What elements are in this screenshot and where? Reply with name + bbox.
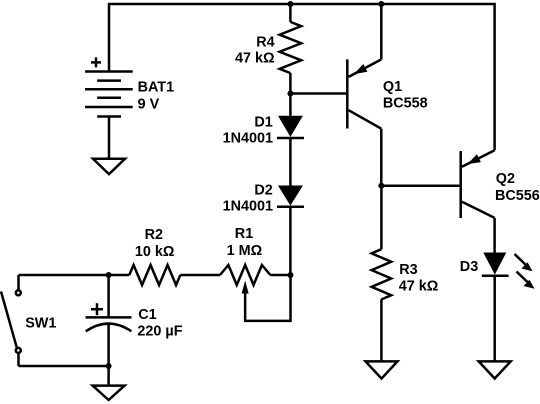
svg-text:220 µF: 220 µF <box>137 324 182 340</box>
svg-text:D3: D3 <box>460 259 478 275</box>
wire C1 top stem <box>107 275 110 317</box>
node top-rail/R4 junction <box>287 1 293 7</box>
node top-rail/Q1 junction <box>378 1 384 7</box>
svg-text:BC556: BC556 <box>495 188 540 204</box>
wire C1 junction to ground <box>107 366 110 386</box>
svg-text:1N4001: 1N4001 <box>223 131 273 147</box>
resistor R3 47 kOhm <box>372 249 439 299</box>
battery BAT1 <box>85 57 174 116</box>
wire top rail to R4 <box>289 4 292 22</box>
wire D2 to R1 right terminal <box>289 207 292 275</box>
wire top rail with battery and Q2 emitter verticals <box>109 4 495 150</box>
wire R1 wiper to right terminal <box>242 277 291 321</box>
wire SW1 bottom rail <box>19 365 109 368</box>
wire R3 to ground <box>380 299 383 361</box>
svg-text:R3: R3 <box>399 262 417 278</box>
svg-text:R2: R2 <box>145 227 163 243</box>
wire D3 to ground <box>493 276 496 362</box>
ground (R3) <box>366 361 398 378</box>
transistor Q2 BC556 <box>461 150 540 218</box>
wire SW1 top to R2 <box>19 274 130 277</box>
svg-text:Q1: Q1 <box>383 79 402 95</box>
svg-text:D1: D1 <box>254 114 272 130</box>
node R4/D1/Q1-base junction <box>287 91 293 97</box>
svg-text:10 kΩ: 10 kΩ <box>135 244 175 260</box>
node Q1-collector/R3/Q2-base junction <box>378 183 384 189</box>
node R1/D2 junction <box>288 272 294 278</box>
LED D3 <box>460 253 509 276</box>
node C1 top junction <box>106 272 112 278</box>
wire D1 to D2 <box>289 138 292 186</box>
wire Q2 collector to D3 <box>493 218 496 253</box>
wire R2 to R1 <box>180 274 220 277</box>
resistor R2 10 kOhm <box>129 227 180 285</box>
potentiometer R1 1 MOhm <box>220 226 270 285</box>
ground (D3) <box>479 361 511 378</box>
transistor Q1 BC558 <box>347 4 427 129</box>
ground (C1) <box>93 386 125 400</box>
wire Q1 base <box>290 92 346 95</box>
svg-text:R4: R4 <box>256 35 274 51</box>
diode D2 1N4001 <box>223 183 304 215</box>
svg-text:1N4001: 1N4001 <box>223 199 273 215</box>
node C1/ground junction <box>106 363 112 369</box>
wire R1 right terminal to junction <box>270 274 290 277</box>
wire C1 bottom stem <box>107 324 110 366</box>
svg-text:9 V: 9 V <box>138 96 160 112</box>
svg-text:D2: D2 <box>254 183 272 199</box>
wire R4 to D1 <box>289 73 292 116</box>
svg-text:47 kΩ: 47 kΩ <box>399 279 439 295</box>
svg-text:47 kΩ: 47 kΩ <box>235 51 275 67</box>
resistor R4 47 kOhm <box>235 22 301 73</box>
svg-text:BAT1: BAT1 <box>138 80 175 96</box>
wire R3 top <box>380 186 383 249</box>
switch SW1 <box>1 275 56 366</box>
LED light arrow 2 <box>517 272 535 289</box>
svg-text:SW1: SW1 <box>25 316 56 332</box>
svg-text:Q2: Q2 <box>496 171 515 187</box>
svg-text:BC558: BC558 <box>383 95 428 111</box>
wire Q1 collector down <box>380 129 383 186</box>
capacitor C1 220 uF <box>86 303 183 340</box>
wire Q2 base <box>381 185 459 188</box>
wire battery to ground <box>108 117 111 159</box>
ground (battery) <box>93 159 125 174</box>
svg-text:1 MΩ: 1 MΩ <box>227 243 263 259</box>
diode D1 1N4001 <box>223 114 304 146</box>
svg-text:C1: C1 <box>138 307 156 323</box>
svg-text:R1: R1 <box>235 226 253 242</box>
LED light arrow 1 <box>515 254 533 271</box>
